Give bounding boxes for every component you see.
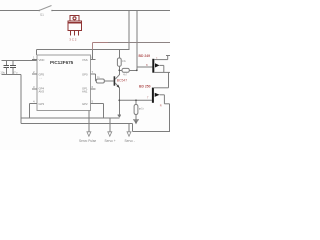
resistor R2 pullup (117, 50, 126, 71)
wire rail above IC y49.5 (37, 49, 129, 51)
wire rail y123.7 (21, 123, 133, 125)
svg-text:S1: S1 (40, 13, 44, 17)
svg-text:PIC12F675: PIC12F675 (50, 60, 74, 65)
wire top rail left of switch (0, 10, 39, 12)
svg-text:3 C 2: 3 C 2 (69, 37, 77, 41)
connector arrow Servo Pulse (79, 132, 96, 143)
wire corner into IC top left (36, 50, 38, 56)
svg-text:AN1: AN1 (82, 89, 88, 93)
wire corner to bottom rail (132, 124, 134, 132)
pin 6 GP1 (82, 85, 96, 93)
pin 3 GP4 (32, 85, 45, 93)
junction dots (118, 69, 137, 101)
wire VSS drop x92.6 (92, 50, 94, 60)
connector arrow Servo + (105, 132, 116, 143)
wire vertical x129 from top rail (128, 11, 130, 51)
svg-text:R: R (160, 104, 162, 108)
transistor Q3 BD250 (119, 72, 169, 131)
svg-text:T: T (147, 96, 149, 100)
wire cap ground rail (2, 74, 22, 76)
svg-text:BD 249: BD 249 (139, 54, 151, 58)
pin 7 GP0 (82, 70, 96, 76)
wire red vertical x92.6 (92, 43, 94, 50)
wire output node right (166, 55, 170, 57)
svg-text:▶1k: ▶1k (139, 107, 144, 111)
wire BC547 collector up (118, 70, 120, 75)
svg-text:BC547: BC547 (117, 79, 127, 83)
svg-text:Servo -: Servo - (125, 139, 135, 143)
resistor R1 base resistor BC547 (96, 74, 112, 83)
wire servo pulse drop (88, 111, 90, 133)
transistor Q2 BD249 (139, 54, 171, 73)
IC U1 PIC12F675 body (37, 55, 90, 111)
wire base feed top transistor (137, 66, 153, 68)
transistor Q1 BC547 (112, 75, 128, 88)
svg-text:10u: 10u (0, 70, 5, 74)
switch S1 (38, 6, 52, 12)
pin 5 GP2 (82, 100, 96, 106)
svg-text:GP3: GP3 (39, 102, 45, 106)
voltage regulator U2 7805 TO-220 (68, 16, 82, 42)
wire GP2 drop (96, 103, 104, 105)
svg-text:VSS: VSS (82, 58, 88, 62)
wire servo plus drop (109, 118, 111, 124)
capacitor C1 (0, 60, 9, 74)
wire GP3 drop to ground rail (29, 104, 31, 118)
pin 8 VSS (82, 56, 96, 62)
resistor R3 horizontal (119, 68, 137, 76)
wire ground drop x21 (20, 75, 22, 124)
svg-text:c: c (156, 56, 158, 59)
resistor R5 base pulldown (134, 100, 145, 120)
wire servo minus drop (128, 124, 130, 132)
svg-text:GP0: GP0 (82, 73, 88, 77)
svg-text:10k: 10k (122, 59, 127, 63)
pin 2 GP5 (32, 70, 45, 79)
svg-text:B: B (146, 63, 148, 67)
wire top rail right of switch (52, 10, 170, 12)
svg-text:Servo +: Servo + (105, 139, 116, 143)
wire vertical x136.8 from top rail (136, 11, 138, 71)
svg-text:VDD: VDD (39, 58, 45, 62)
pin 4 GP3 (30, 100, 45, 106)
ground arrow at BC547 emitter (117, 115, 121, 119)
svg-text:4k7: 4k7 (123, 72, 128, 76)
svg-text:Servo Pulse: Servo Pulse (79, 139, 96, 143)
ground symbol under R5 (133, 120, 139, 125)
wire ground rail y118 (21, 117, 119, 119)
connector arrow Servo - (125, 132, 135, 143)
capacitor C2 (10, 60, 18, 74)
svg-text:BD 250: BD 250 (139, 84, 151, 88)
wire +5V rail to VDD (2, 59, 38, 61)
svg-text:AN3: AN3 (39, 89, 45, 93)
wire bottom rail y131.7 (133, 131, 171, 133)
svg-text:GP2: GP2 (82, 102, 88, 106)
svg-text:⌞⌟: ⌞⌟ (40, 76, 43, 79)
wire BC547 emitter down (118, 88, 120, 115)
pin 1 VDD (32, 56, 44, 62)
wire red rail y42.5 (93, 42, 108, 44)
